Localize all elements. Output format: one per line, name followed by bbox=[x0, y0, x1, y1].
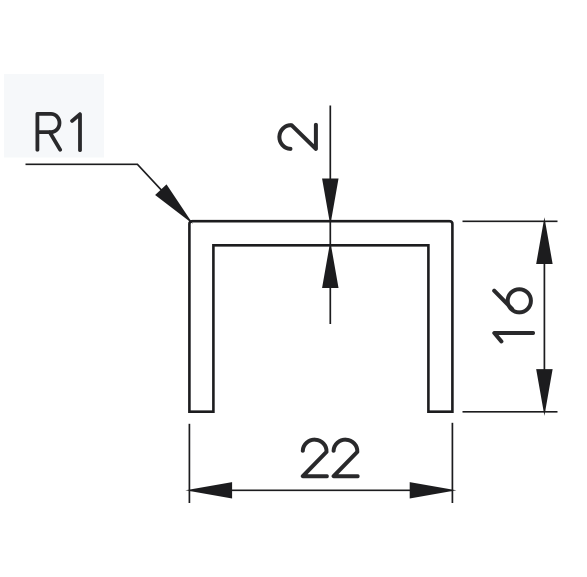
dimension 16: upper arrow (points up) bbox=[537, 221, 552, 263]
dimension 16: text "16" (rotated, reads bottom-to-top) bbox=[494, 289, 533, 341]
dimension 22: left arrow (points left) bbox=[189, 483, 231, 498]
U-channel profile outline bbox=[189, 221, 452, 412]
dimension 22: horizontal dimension line bbox=[189, 489, 452, 491]
dimension 2: text "2" (rotated, reads bottom-to-top) bbox=[279, 125, 316, 149]
radius callout R1: leader line with arrow to top-left corner bbox=[26, 164, 191, 221]
dimension 16: bottom extension line bbox=[463, 411, 558, 413]
dimension 22: right extension line bbox=[451, 423, 453, 503]
dimension 22: left extension line bbox=[188, 424, 190, 503]
dimension 16: lower arrow (points down) bbox=[537, 370, 552, 412]
radius callout R1: text "R1" bbox=[37, 114, 80, 150]
dimension 22: right arrow (points right) bbox=[410, 483, 452, 498]
dimension 16: top extension line bbox=[463, 220, 558, 222]
dimension 16: vertical dimension line bbox=[543, 221, 545, 411]
dimension 2: upper arrow (points down to outer top line) bbox=[323, 179, 338, 221]
dimension 22: text "22" bbox=[303, 440, 358, 477]
label highlight box behind R1 bbox=[4, 74, 104, 158]
dimension 2: lower arrow (points up to inner top line) bbox=[323, 245, 338, 287]
radius callout R1: arrowhead bbox=[156, 185, 190, 220]
dimension 2: vertical dimension line bbox=[329, 106, 331, 325]
